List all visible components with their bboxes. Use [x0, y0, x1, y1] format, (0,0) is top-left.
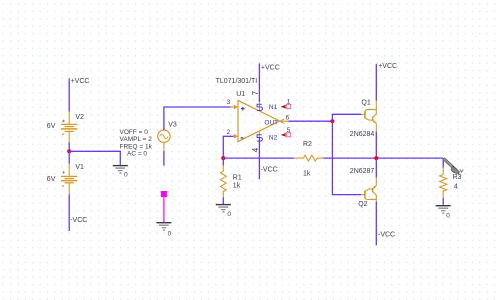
svg-text:TL071/301/TI: TL071/301/TI — [216, 78, 258, 85]
svg-text:1k: 1k — [233, 183, 241, 190]
svg-text:+VCC: +VCC — [71, 78, 90, 85]
ground 0 (R3) — [436, 206, 451, 213]
wire V1 to -VCC — [68, 194, 70, 231]
svg-text:OUT: OUT — [264, 120, 278, 127]
node emitters junction — [374, 156, 378, 160]
selected dangling net (magenta) — [161, 191, 167, 222]
svg-text:0: 0 — [124, 171, 128, 178]
svg-text:0: 0 — [446, 212, 450, 219]
svg-text:3: 3 — [227, 99, 231, 106]
op-amp triangle — [238, 100, 280, 141]
svg-text:1: 1 — [287, 99, 291, 106]
battery V1 — [47, 151, 84, 194]
V3 parameter labels — [120, 129, 153, 158]
ground 0 (below selected net) — [156, 223, 171, 230]
svg-text:V3: V3 — [168, 121, 177, 128]
svg-text:VAMPL = 2: VAMPL = 2 — [120, 136, 153, 143]
node +VCC (left) — [69, 78, 89, 112]
svg-text:4: 4 — [454, 183, 458, 190]
svg-text:5: 5 — [287, 127, 291, 134]
svg-text:1k: 1k — [303, 170, 311, 177]
svg-text:2N6287: 2N6287 — [350, 168, 375, 175]
svg-text:R2: R2 — [303, 141, 312, 148]
svg-text:4: 4 — [251, 147, 260, 152]
pin 7 power glyph — [257, 104, 263, 110]
plus mark — [241, 107, 245, 111]
transistor Q2 2N6287 — [375, 158, 377, 178]
mouse cursor — [444, 159, 464, 175]
minus mark — [241, 137, 244, 139]
svg-text:-VCC: -VCC — [378, 232, 395, 239]
wire junction to ground — [69, 151, 120, 165]
svg-text:Q1: Q1 — [361, 99, 370, 106]
transistor Q1 2N6284 — [361, 101, 376, 132]
svg-text:6V: 6V — [47, 176, 56, 183]
svg-text:6V: 6V — [47, 123, 56, 130]
wire to Q2 base — [332, 121, 361, 194]
svg-text:0: 0 — [227, 211, 231, 218]
wire +VCC to Q1 collector — [375, 64, 377, 101]
svg-text:VOFF = 0: VOFF = 0 — [120, 129, 149, 136]
svg-text:R1: R1 — [233, 175, 242, 182]
node junction batteries — [67, 149, 71, 153]
svg-text:-VCC: -VCC — [70, 217, 87, 224]
svg-text:2N6284: 2N6284 — [350, 131, 375, 138]
ground 0 (R1) — [216, 205, 231, 212]
svg-text:0: 0 — [168, 231, 172, 238]
svg-text:U1: U1 — [236, 91, 245, 98]
pin 4 power glyph — [257, 135, 263, 141]
wire pin6 to Q bases — [289, 120, 333, 122]
node output junction — [330, 119, 334, 123]
pin 7 wire — [258, 63, 260, 102]
node feedback junction — [221, 156, 225, 160]
svg-text:AC = 0: AC = 0 — [127, 151, 147, 158]
wire rail junction to R2 — [223, 157, 294, 159]
svg-text:-VCC: -VCC — [261, 167, 278, 174]
resistor R1 — [220, 158, 241, 197]
resistor R2 — [294, 141, 323, 177]
svg-text:+VCC: +VCC — [261, 64, 280, 71]
wire V2 to junction — [68, 142, 70, 151]
svg-text:FREQ = 1k: FREQ = 1k — [120, 143, 153, 150]
svg-text:V2: V2 — [75, 114, 84, 121]
svg-text:R3: R3 — [453, 174, 462, 181]
svg-text:N1: N1 — [269, 104, 278, 111]
source V3 — [158, 121, 177, 142]
ground 0 (batteries) — [113, 166, 128, 173]
wire R2 to emitters junction — [323, 157, 443, 159]
battery V2 — [47, 112, 84, 143]
wire Q1 emitter to rail — [375, 132, 377, 159]
svg-text:2: 2 — [227, 129, 231, 136]
wire to Q1 base — [332, 114, 361, 121]
wire V3 top to pin3 — [164, 107, 231, 130]
svg-text:Q2: Q2 — [358, 201, 367, 208]
svg-text:7: 7 — [251, 90, 260, 95]
wire V3 bottom dangling — [163, 142, 165, 151]
resistor R3 — [440, 158, 462, 198]
pin 4 wire — [258, 131, 260, 137]
wire — [68, 78, 70, 111]
svg-text:V1: V1 — [75, 164, 84, 171]
svg-text:N2: N2 — [269, 134, 278, 141]
svg-text:+VCC: +VCC — [378, 63, 397, 70]
wire Q2 collector to -VCC — [375, 202, 377, 246]
svg-text:6: 6 — [286, 114, 290, 121]
